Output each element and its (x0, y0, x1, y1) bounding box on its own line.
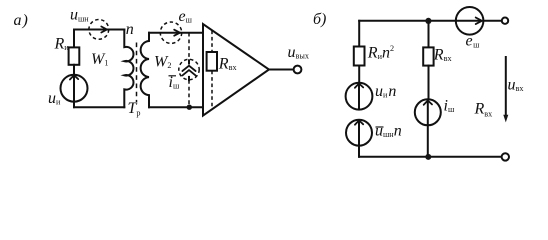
wire: b bottom (359, 156, 501, 158)
source ūшн n (346, 120, 372, 146)
transformer core (136, 43, 138, 103)
op-amp U1 triangle (203, 24, 269, 116)
wire: stub box to source (73, 65, 75, 76)
terminal uвых (294, 66, 302, 74)
wire: primary bottom (74, 106, 124, 108)
wire: stub to bottom (358, 146, 360, 157)
noise source eш (dashed marker) (160, 22, 181, 43)
wire: middle branch bottom (427, 125, 429, 157)
svg-text:а): а) (14, 12, 29, 29)
svg-text:б): б) (313, 11, 326, 28)
transformer winding W2 (141, 33, 149, 108)
junction dot bottom (425, 154, 431, 160)
transformer winding W1 (124, 30, 133, 108)
terminal bottom right (502, 153, 509, 160)
wire: primary top (74, 29, 124, 31)
wire: dashed noise branch lower (188, 80, 190, 105)
noise current source iш (179, 59, 199, 79)
junction dot top (425, 18, 431, 24)
noise source uшн (dashed marker) (89, 20, 109, 40)
wire: dashed Rвх bottom lead (211, 71, 213, 110)
wire: middle stub (428, 66, 430, 100)
wire: primary left branch upper stub (73, 30, 75, 48)
wire: middle branch top (428, 21, 430, 48)
wire: stub (358, 66, 360, 84)
resistor Rвх (amplifier input) (207, 52, 217, 71)
terminal top right (502, 18, 508, 24)
wire: dashed noise branch upper (188, 33, 190, 60)
label iш (with overline) (169, 75, 177, 77)
wire: output (269, 69, 294, 71)
wire: stub source to bottom (73, 101, 75, 107)
current source iш (415, 99, 441, 125)
wire: b left branch top stub (358, 21, 360, 47)
label ūшн n (overline) (376, 126, 384, 128)
junction dot (187, 105, 192, 110)
resistor Rи (69, 47, 80, 64)
resistor Rи n2 (354, 47, 365, 66)
source uи (61, 75, 88, 102)
resistor Rвх (b) (423, 47, 433, 65)
source eш (b) (456, 7, 484, 35)
wire: dashed Rвх top lead (211, 31, 213, 53)
wire: b top (359, 20, 502, 22)
arrow uвх (505, 57, 507, 116)
svg-text:n: n (126, 21, 134, 38)
source uи n (346, 83, 373, 110)
wire: secondary bottom (149, 106, 203, 108)
wire: secondary top (149, 32, 203, 34)
